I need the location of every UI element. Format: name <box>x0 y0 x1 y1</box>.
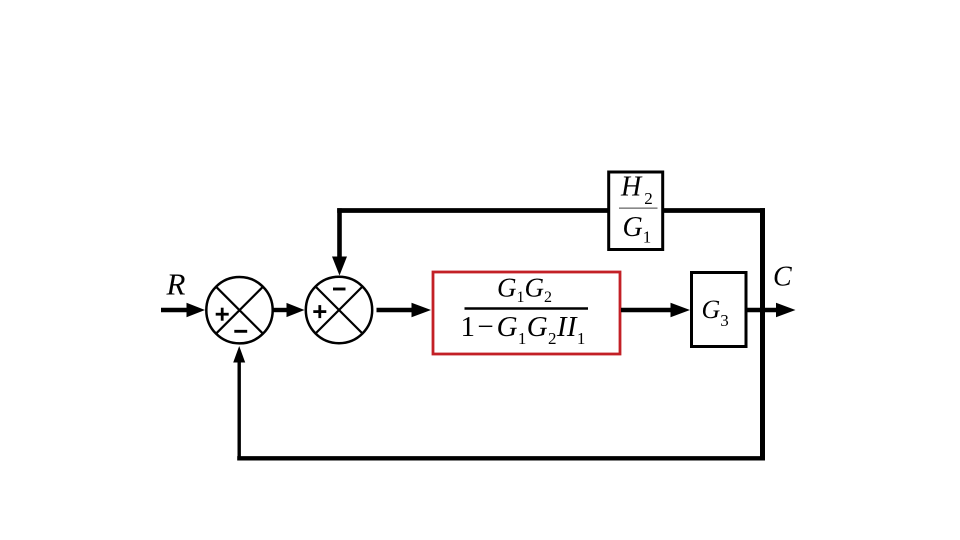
wire S1 to summer S2 <box>273 303 305 317</box>
summing junction S1 <box>206 277 272 343</box>
node R label <box>166 267 186 302</box>
wire bottom feedback horizontal <box>237 456 765 460</box>
S1 plus sign <box>216 308 229 321</box>
wire bottom feedback up into S1 <box>233 346 245 460</box>
svg-text:G1G2: G1G2 <box>497 273 552 307</box>
S2 plus sign <box>313 305 326 318</box>
block H2/G1 <box>609 172 663 250</box>
S1 minus sign <box>234 330 247 333</box>
svg-text:C: C <box>773 262 792 293</box>
block G1G2/(1-G1G2H1) numerator <box>497 273 552 307</box>
S2 minus sign <box>333 288 346 291</box>
wire block to G3 <box>621 303 690 318</box>
block G1G2/(1-G1G2H1) denominator <box>461 311 586 348</box>
block H2/G1 fraction bar <box>619 207 658 209</box>
node C label <box>773 262 792 293</box>
summing junction S2 <box>306 277 372 343</box>
block G1G2/(1-G1G2H1) red box <box>433 272 620 354</box>
wire S2 to block G1G2 <box>377 303 432 318</box>
svg-text:R: R <box>166 267 186 302</box>
wire right vertical <box>760 208 765 460</box>
wire input arrow R to summer S1 <box>161 303 205 317</box>
block H2/G1 denominator G1 <box>623 212 652 247</box>
wire G3 to output C <box>747 303 796 318</box>
wire top feedback down into S2 <box>332 208 347 275</box>
block H2/G1 numerator H2 <box>620 172 653 209</box>
block G3 <box>692 273 747 347</box>
wire top feedback horizontal <box>337 208 765 213</box>
block fraction bar <box>465 307 589 309</box>
